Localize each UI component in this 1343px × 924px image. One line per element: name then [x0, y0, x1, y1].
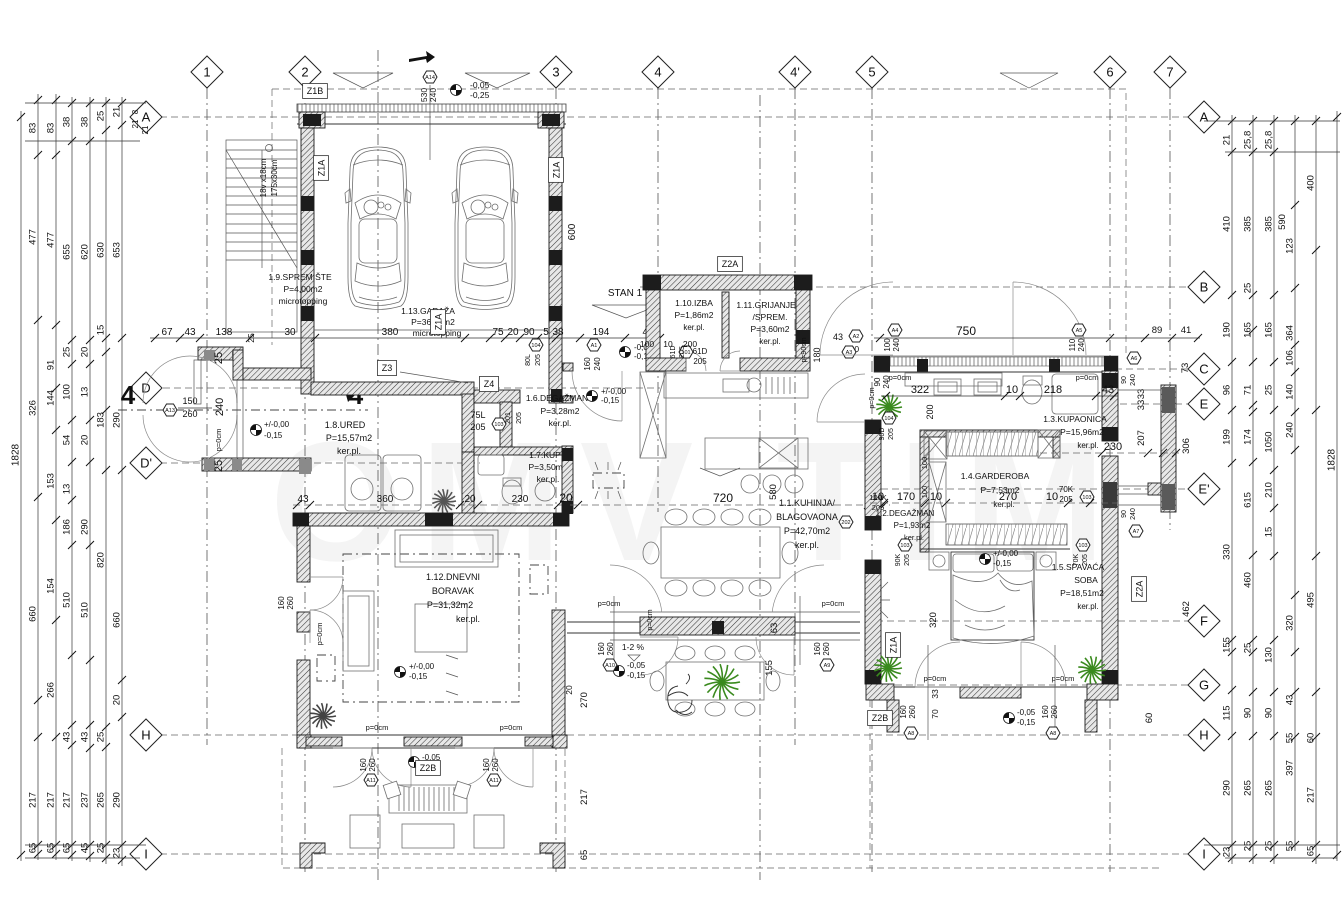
- svg-text:265: 265: [96, 792, 107, 808]
- svg-text:-0,15: -0,15: [409, 672, 428, 681]
- svg-text:Z1A: Z1A: [316, 160, 326, 177]
- svg-text:microtopping: microtopping: [279, 296, 328, 306]
- svg-text:H: H: [1199, 728, 1208, 743]
- garage left wall: [301, 128, 314, 394]
- svg-text:55: 55: [1285, 733, 1296, 744]
- svg-text:25: 25: [96, 732, 107, 743]
- svg-text:103: 103: [900, 543, 909, 549]
- svg-text:25,8: 25,8: [1243, 131, 1254, 150]
- svg-text:1.7.KUP: 1.7.KUP: [529, 450, 561, 460]
- svg-text:25: 25: [1243, 643, 1254, 654]
- svg-text:20: 20: [564, 685, 574, 695]
- svg-text:90: 90: [1121, 376, 1128, 384]
- svg-text:186: 186: [62, 519, 73, 535]
- svg-text:A4: A4: [892, 328, 899, 334]
- living room bottom wall + sills: [297, 734, 567, 736]
- svg-text:15: 15: [96, 325, 107, 336]
- entry door swing arcs: [143, 356, 237, 403]
- svg-text:43: 43: [297, 494, 309, 505]
- svg-text:C: C: [1199, 362, 1208, 377]
- izba left wall: [646, 290, 660, 371]
- svg-text:104: 104: [884, 416, 893, 422]
- svg-text:15: 15: [1264, 527, 1275, 538]
- svg-text:138: 138: [216, 327, 233, 338]
- svg-text:38: 38: [80, 117, 91, 128]
- svg-text:SOBA: SOBA: [1074, 575, 1098, 585]
- svg-text:/SPREM.: /SPREM.: [753, 312, 788, 322]
- svg-text:-0,15: -0,15: [264, 431, 283, 440]
- svg-text:8: 8: [131, 109, 140, 114]
- plants bedroom: [874, 654, 902, 682]
- top diamonds: [191, 56, 223, 88]
- svg-text:364: 364: [1285, 325, 1296, 341]
- svg-text:7: 7: [1166, 65, 1173, 80]
- svg-text:67: 67: [161, 327, 173, 338]
- izba bottom wall w doors: [646, 358, 686, 371]
- svg-text:260: 260: [606, 642, 615, 656]
- svg-text:160: 160: [482, 758, 491, 772]
- svg-text:E': E': [1198, 482, 1209, 497]
- svg-text:38: 38: [62, 117, 73, 128]
- svg-text:205: 205: [516, 412, 523, 424]
- svg-text:655: 655: [62, 244, 73, 260]
- svg-text:20: 20: [464, 494, 476, 505]
- section arrow 1 top: [409, 51, 435, 63]
- svg-text:385: 385: [1264, 216, 1275, 232]
- garderoba dim row: [870, 502, 1118, 504]
- svg-text:p=90cm: p=90cm: [801, 337, 808, 362]
- rug table: [415, 604, 467, 652]
- svg-text:110: 110: [1068, 338, 1077, 351]
- svg-text:71: 71: [1243, 385, 1254, 396]
- bathroom vanity: [905, 373, 1002, 386]
- svg-text:-0,25: -0,25: [470, 90, 490, 100]
- svg-text:+/-0,00: +/-0,00: [993, 549, 1019, 558]
- svg-text:290: 290: [1222, 780, 1233, 796]
- svg-text:260: 260: [1050, 705, 1059, 719]
- svg-text:P=3,60m2: P=3,60m2: [751, 324, 790, 334]
- wall Z4 step: [462, 394, 474, 452]
- svg-text:A8: A8: [1050, 731, 1057, 737]
- arrows markers kitchen wall: [446, 655, 458, 659]
- svg-text:96: 96: [1222, 385, 1233, 396]
- svg-text:-0,15: -0,15: [1017, 718, 1036, 727]
- svg-text:240: 240: [892, 338, 901, 352]
- svg-text:20: 20: [80, 435, 91, 446]
- svg-text:21: 21: [131, 119, 140, 128]
- svg-text:4: 4: [654, 65, 661, 80]
- svg-text:100: 100: [920, 457, 929, 470]
- svg-text:p=0cm: p=0cm: [869, 387, 876, 408]
- bedroom bottom wall: [866, 684, 894, 700]
- chain connector lines: [25, 102, 146, 104]
- svg-text:43: 43: [62, 732, 73, 743]
- svg-text:115: 115: [1222, 705, 1233, 720]
- right wing top wall: [874, 356, 1118, 372]
- svg-text:183: 183: [96, 412, 107, 428]
- svg-text:I: I: [144, 847, 148, 862]
- car 2: [452, 147, 518, 310]
- svg-text:205: 205: [470, 422, 485, 432]
- svg-text:70K: 70K: [1059, 485, 1074, 494]
- terrace band center: [640, 617, 795, 635]
- svg-text:5: 5: [868, 65, 875, 80]
- svg-text:A7: A7: [1133, 529, 1140, 535]
- svg-text:A10: A10: [605, 663, 615, 669]
- svg-text:240: 240: [593, 357, 602, 371]
- svg-text:70: 70: [930, 709, 940, 719]
- svg-text:73: 73: [1180, 363, 1191, 374]
- svg-text:510: 510: [62, 592, 73, 608]
- kitchen island: [705, 438, 808, 469]
- svg-text:210: 210: [1264, 482, 1275, 498]
- svg-text:199: 199: [1222, 429, 1233, 445]
- svg-text:41: 41: [1181, 325, 1192, 336]
- nightstands: [929, 552, 949, 570]
- svg-text:P=31,32m2: P=31,32m2: [427, 600, 473, 610]
- svg-text:175x30cm: 175x30cm: [270, 159, 279, 196]
- toilet: [1022, 380, 1042, 404]
- svg-text:820: 820: [96, 552, 107, 568]
- svg-text:F: F: [1200, 614, 1208, 629]
- roof overhang dashed outline: [272, 89, 1126, 355]
- svg-text:90: 90: [523, 327, 535, 338]
- svg-text:A6: A6: [1131, 356, 1138, 362]
- svg-text:45: 45: [80, 843, 91, 854]
- garage top tick band: [297, 104, 566, 112]
- svg-text:P=15,96m2: P=15,96m2: [1060, 427, 1104, 437]
- svg-text:2: 2: [301, 65, 308, 80]
- svg-text:620: 620: [80, 244, 91, 260]
- svg-text:4: 4: [121, 380, 136, 410]
- svg-text:D': D': [140, 456, 152, 471]
- svg-text:240: 240: [1130, 508, 1137, 520]
- svg-text:25: 25: [213, 460, 225, 472]
- svg-text:A2: A2: [853, 334, 860, 340]
- svg-text:I: I: [1202, 847, 1206, 862]
- svg-text:ker.pl.: ker.pl.: [759, 337, 780, 346]
- svg-text:4': 4': [790, 65, 800, 80]
- svg-text:1.3.KUPAONICA: 1.3.KUPAONICA: [1043, 414, 1107, 424]
- svg-text:580: 580: [768, 484, 779, 500]
- svg-text:33: 33: [1136, 400, 1147, 411]
- svg-text:397: 397: [1285, 760, 1296, 776]
- svg-text:270: 270: [999, 491, 1017, 503]
- svg-text:380: 380: [382, 327, 399, 338]
- svg-text:410: 410: [1222, 216, 1233, 232]
- svg-text:160: 160: [597, 642, 606, 656]
- svg-text:240: 240: [214, 398, 226, 416]
- living room left wall: [297, 526, 310, 582]
- svg-text:1.4.GARDEROBA: 1.4.GARDEROBA: [961, 471, 1030, 481]
- svg-text:170: 170: [897, 491, 915, 503]
- svg-text:590: 590: [1277, 214, 1288, 230]
- svg-text:90: 90: [1243, 708, 1254, 719]
- svg-text:265: 265: [1264, 780, 1275, 796]
- svg-text:A8: A8: [908, 731, 915, 737]
- svg-text:Z4: Z4: [484, 379, 495, 389]
- svg-text:25: 25: [96, 111, 107, 122]
- svg-text:205: 205: [888, 428, 895, 440]
- mid dim row 720: [570, 504, 890, 506]
- entry top stub wall: [198, 347, 243, 360]
- far right wall stubs: [1161, 385, 1176, 512]
- svg-text:G: G: [1199, 678, 1209, 693]
- svg-text:B: B: [1200, 280, 1209, 295]
- svg-text:25: 25: [96, 843, 107, 854]
- svg-text:P=1,93m2: P=1,93m2: [894, 521, 931, 530]
- svg-text:237: 237: [80, 792, 91, 808]
- svg-text:194: 194: [593, 327, 610, 338]
- svg-text:218: 218: [1044, 384, 1062, 396]
- bed: [951, 552, 1034, 640]
- svg-text:230: 230: [1104, 441, 1122, 453]
- izba-grijanje block top wall: [643, 275, 812, 290]
- right wing top window arcs: [820, 282, 893, 355]
- svg-text:240: 240: [428, 88, 438, 102]
- radiator symbols: [530, 565, 548, 594]
- svg-text:65: 65: [28, 843, 39, 854]
- svg-text:p=0cm: p=0cm: [315, 623, 324, 646]
- svg-text:1.6.DEGAŽMAN: 1.6.DEGAŽMAN: [526, 393, 588, 403]
- left diamonds: [130, 101, 162, 133]
- svg-text:462: 462: [1181, 601, 1192, 617]
- svg-text:25: 25: [1264, 841, 1275, 852]
- svg-text:1828: 1828: [1327, 448, 1338, 471]
- svg-text:205: 205: [535, 354, 542, 366]
- svg-text:p=0cm: p=0cm: [366, 723, 389, 732]
- svg-text:660: 660: [112, 612, 123, 628]
- svg-text:Z2A: Z2A: [722, 259, 739, 269]
- svg-text:Z3: Z3: [382, 363, 393, 373]
- svg-text:240: 240: [1077, 338, 1086, 352]
- mid dim row y503 left: [293, 504, 570, 506]
- svg-text:-0,15: -0,15: [993, 559, 1012, 568]
- svg-text:ker.pl.: ker.pl.: [537, 474, 560, 484]
- svg-text:89: 89: [1152, 325, 1163, 336]
- svg-text:Z2B: Z2B: [872, 713, 889, 723]
- svg-text:1.1.KUHINJA/: 1.1.KUHINJA/: [779, 498, 836, 508]
- svg-text:1.2.DEGAŽMAN: 1.2.DEGAŽMAN: [876, 509, 935, 518]
- svg-text:290: 290: [112, 792, 123, 808]
- svg-text:STAN 1: STAN 1: [608, 288, 643, 299]
- svg-text:p=0cm: p=0cm: [214, 429, 223, 452]
- svg-text:155: 155: [1222, 637, 1233, 653]
- bottom corner L columns: [300, 843, 325, 868]
- svg-text:A5: A5: [1076, 328, 1083, 334]
- svg-text:Z1A: Z1A: [551, 162, 561, 179]
- svg-text:ker.pl.: ker.pl.: [337, 446, 361, 456]
- sofa left: [343, 591, 374, 671]
- plant grey ured: [432, 489, 456, 513]
- kitchen counter top: [664, 373, 808, 398]
- svg-text:160: 160: [899, 705, 908, 719]
- svg-text:A: A: [1200, 110, 1209, 125]
- svg-text:1.5.SPAVAĆA: 1.5.SPAVAĆA: [1052, 562, 1105, 572]
- right wing right wall: [1102, 371, 1118, 441]
- kup east wall: [562, 446, 573, 513]
- svg-text:1.12.DNEVNI: 1.12.DNEVNI: [426, 572, 480, 582]
- svg-text:160: 160: [813, 642, 822, 656]
- svg-text:43: 43: [1285, 695, 1296, 706]
- svg-text:100: 100: [62, 384, 73, 400]
- svg-text:25: 25: [62, 347, 73, 358]
- degazman partition: [920, 437, 929, 552]
- radiator arrows bedroom side: [880, 582, 890, 618]
- svg-text:260: 260: [822, 642, 831, 656]
- garage right wall: [549, 128, 562, 403]
- terrace furniture below living: [389, 785, 467, 813]
- svg-text:3: 3: [552, 65, 559, 80]
- svg-text:ker.pl.: ker.pl.: [795, 540, 819, 550]
- svg-text:103: 103: [1082, 495, 1091, 501]
- svg-text:25: 25: [246, 333, 256, 343]
- svg-text:-0,05: -0,05: [627, 661, 646, 670]
- svg-text:400: 400: [1306, 175, 1317, 191]
- svg-text:P=1,86m2: P=1,86m2: [675, 310, 714, 320]
- top gable triangles: [333, 73, 393, 88]
- svg-text:217: 217: [62, 792, 73, 808]
- garage corner pilaster right: [538, 112, 564, 128]
- svg-text:1.11.GRIJANJE: 1.11.GRIJANJE: [736, 300, 796, 310]
- svg-text:43: 43: [80, 732, 91, 743]
- hall door A1: [572, 371, 622, 421]
- svg-text:600: 600: [567, 223, 578, 240]
- svg-text:160: 160: [359, 758, 368, 772]
- radiator kitchen: [593, 473, 624, 488]
- svg-text:103: 103: [1078, 543, 1087, 549]
- svg-text:320: 320: [928, 612, 939, 628]
- svg-text:320: 320: [1285, 615, 1296, 631]
- svg-text:10: 10: [872, 491, 884, 503]
- svg-text:21: 21: [1222, 135, 1233, 146]
- garage floor edge / door: [314, 329, 549, 331]
- svg-text:123: 123: [1285, 238, 1296, 254]
- section 4-4 line: [118, 409, 368, 411]
- svg-text:A14: A14: [425, 75, 435, 81]
- stairs: [226, 140, 297, 332]
- svg-text:20: 20: [112, 695, 123, 706]
- svg-text:E: E: [1200, 397, 1209, 412]
- svg-text:477: 477: [46, 232, 57, 248]
- tub: [1052, 374, 1098, 414]
- svg-text:D: D: [141, 381, 150, 396]
- garage bottom dim row: [150, 337, 660, 339]
- svg-text:A: A: [142, 110, 151, 125]
- svg-text:A13: A13: [165, 408, 175, 414]
- entry lower wall: [202, 458, 311, 471]
- svg-text:33: 33: [930, 689, 940, 699]
- svg-text:5: 5: [543, 327, 549, 338]
- svg-text:495: 495: [1306, 592, 1317, 608]
- svg-text:326: 326: [28, 400, 39, 416]
- garage corner pilaster left: [299, 112, 325, 128]
- svg-text:720: 720: [713, 491, 733, 505]
- svg-text:90: 90: [1264, 708, 1275, 719]
- svg-text:60: 60: [1306, 733, 1317, 744]
- svg-text:20: 20: [559, 491, 573, 505]
- izba partition: [722, 292, 729, 358]
- svg-text:18v x18cm: 18v x18cm: [259, 158, 268, 197]
- svg-text:240: 240: [1130, 374, 1137, 386]
- svg-text:25: 25: [213, 352, 225, 364]
- svg-text:+/-0,00: +/-0,00: [264, 420, 290, 429]
- svg-text:ker.pl.: ker.pl.: [1077, 441, 1098, 450]
- svg-text:90: 90: [873, 377, 882, 386]
- svg-text:190: 190: [1222, 322, 1233, 338]
- ured desks: [345, 455, 381, 511]
- svg-text:75L: 75L: [470, 410, 485, 420]
- svg-text:60: 60: [1144, 713, 1155, 724]
- svg-text:10: 10: [1006, 384, 1018, 396]
- svg-text:BORAVAK: BORAVAK: [432, 586, 474, 596]
- svg-text:H: H: [141, 728, 150, 743]
- svg-text:21: 21: [141, 125, 150, 134]
- svg-text:207: 207: [1136, 430, 1147, 446]
- svg-text:p=0cm: p=0cm: [598, 599, 621, 608]
- svg-text:10: 10: [663, 339, 673, 349]
- kup fixtures: [478, 455, 504, 475]
- svg-text:p=0cm: p=0cm: [500, 723, 523, 732]
- svg-text:150: 150: [182, 396, 197, 406]
- svg-text:Z2A: Z2A: [1134, 581, 1144, 598]
- svg-text:653: 653: [112, 242, 123, 258]
- svg-text:165: 165: [1264, 322, 1275, 338]
- svg-text:25,8: 25,8: [1264, 131, 1275, 150]
- living terrace door arcs below: [333, 748, 372, 787]
- svg-text:6: 6: [1106, 65, 1113, 80]
- car 1: [345, 147, 411, 310]
- shaft xbox below izba: [640, 372, 666, 458]
- living room right wall: [552, 610, 565, 748]
- svg-text:217: 217: [28, 792, 39, 808]
- svg-text:510: 510: [80, 602, 91, 618]
- svg-text:23: 23: [1222, 847, 1233, 858]
- svg-text:ker.pl.: ker.pl.: [683, 323, 704, 332]
- svg-text:217: 217: [1306, 787, 1317, 803]
- svg-text:-0,15: -0,15: [601, 396, 620, 405]
- person sketch: [668, 674, 692, 715]
- svg-text:10: 10: [1046, 491, 1058, 503]
- svg-text:43: 43: [833, 332, 843, 342]
- svg-text:160: 160: [277, 596, 286, 610]
- svg-text:200: 200: [925, 404, 935, 419]
- svg-text:65: 65: [46, 843, 57, 854]
- living room dashed zone: [343, 554, 519, 702]
- svg-text:385: 385: [1243, 216, 1254, 232]
- svg-text:20: 20: [507, 327, 519, 338]
- svg-text:100: 100: [883, 338, 892, 352]
- plant living: [310, 703, 336, 729]
- svg-text:165: 165: [1243, 322, 1254, 338]
- svg-text:25: 25: [1243, 841, 1254, 852]
- svg-text:100: 100: [920, 486, 929, 499]
- svg-text:+/-0,00: +/-0,00: [409, 662, 435, 671]
- svg-text:ker.pl.: ker.pl.: [456, 614, 480, 624]
- svg-text:630: 630: [96, 242, 107, 258]
- svg-text:660: 660: [28, 606, 39, 622]
- svg-text:21: 21: [112, 107, 123, 118]
- small level marker deg: [1129, 525, 1143, 537]
- svg-text:1.9.SPREMIŠTE: 1.9.SPREMIŠTE: [268, 272, 332, 282]
- svg-text:90K: 90K: [895, 553, 902, 566]
- svg-text:260: 260: [491, 758, 500, 772]
- garderoba closets: [946, 432, 1038, 456]
- grid column lines: [206, 88, 208, 745]
- svg-text:240: 240: [1285, 422, 1296, 438]
- svg-text:P=4,00m2: P=4,00m2: [284, 284, 323, 294]
- svg-text:13: 13: [80, 387, 91, 398]
